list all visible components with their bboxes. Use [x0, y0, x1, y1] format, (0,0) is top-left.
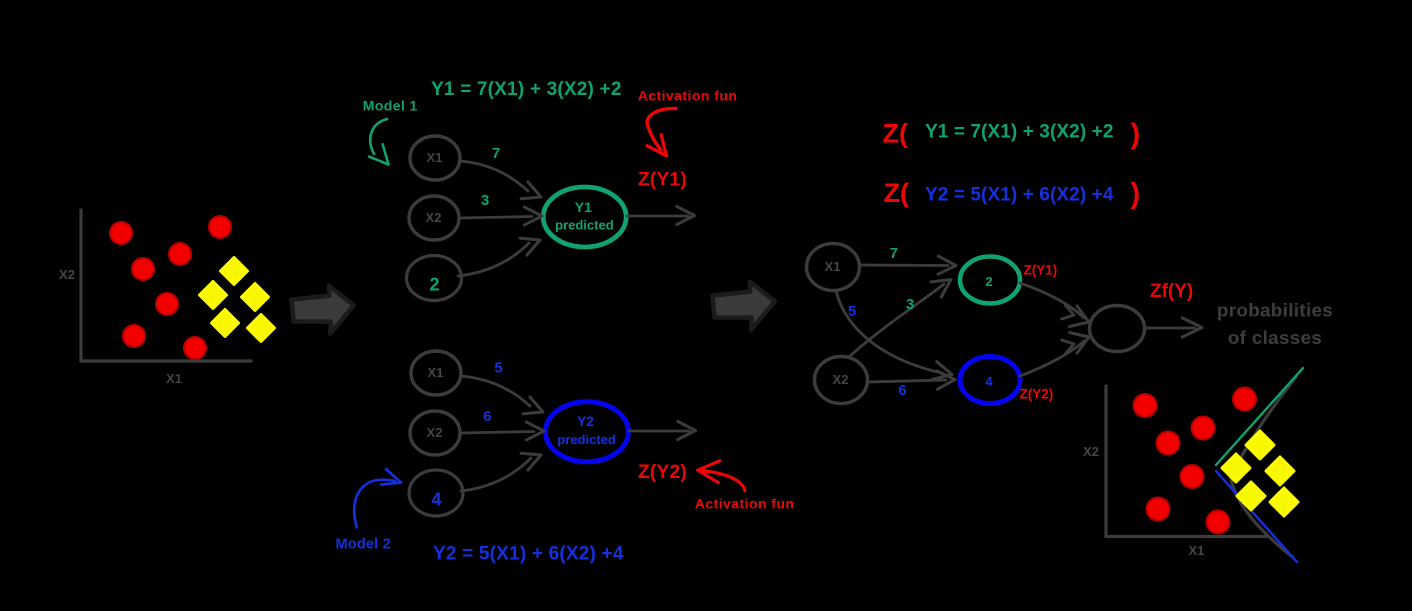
svg-text:Activation fun: Activation fun [695, 496, 795, 512]
svg-text:Activation fun: Activation fun [638, 88, 738, 104]
svg-text:Y1: Y1 [575, 199, 592, 215]
svg-text:4: 4 [985, 374, 993, 389]
svg-text:3: 3 [906, 296, 914, 313]
svg-text:3: 3 [481, 192, 489, 209]
svg-text:): ) [1131, 119, 1141, 151]
svg-text:Z(Y2): Z(Y2) [1020, 387, 1054, 402]
svg-text:X1: X1 [1189, 543, 1205, 558]
svg-text:X2: X2 [833, 372, 849, 387]
svg-text:X2: X2 [427, 425, 443, 440]
svg-text:Z(: Z( [883, 118, 908, 148]
svg-text:X1: X1 [825, 259, 841, 274]
svg-text:Z(: Z( [884, 178, 909, 208]
svg-text:Y2 = 5(X1) + 6(X2) +4: Y2 = 5(X1) + 6(X2) +4 [925, 184, 1114, 205]
svg-text:Zf(Y): Zf(Y) [1150, 281, 1193, 302]
svg-text:X1: X1 [428, 365, 444, 380]
svg-text:X2: X2 [59, 267, 75, 282]
svg-text:Y1 = 7(X1) + 3(X2) +2: Y1 = 7(X1) + 3(X2) +2 [925, 122, 1114, 143]
svg-text:X2: X2 [1083, 444, 1099, 459]
svg-text:Z(Y1): Z(Y1) [638, 170, 687, 191]
svg-text:): ) [1131, 178, 1141, 210]
svg-text:5: 5 [494, 360, 502, 377]
svg-text:X1: X1 [166, 371, 182, 386]
svg-text:7: 7 [492, 145, 500, 162]
svg-text:Model 1: Model 1 [363, 98, 418, 114]
svg-text:7: 7 [890, 245, 898, 262]
svg-text:2: 2 [985, 274, 992, 289]
svg-text:probabilities: probabilities [1217, 300, 1333, 321]
svg-text:of classes: of classes [1228, 327, 1322, 348]
svg-text:Model 2: Model 2 [336, 537, 391, 553]
svg-text:predicted: predicted [555, 218, 614, 233]
svg-text:Y1 = 7(X1) + 3(X2) +2: Y1 = 7(X1) + 3(X2) +2 [431, 79, 622, 100]
svg-text:Y2 = 5(X1) + 6(X2) +4: Y2 = 5(X1) + 6(X2) +4 [433, 544, 624, 565]
svg-text:2: 2 [429, 275, 439, 295]
svg-text:X2: X2 [426, 210, 442, 225]
svg-text:X1: X1 [427, 150, 443, 165]
svg-text:predicted: predicted [557, 432, 616, 447]
svg-text:Y2: Y2 [577, 413, 594, 429]
svg-text:Z(Y2): Z(Y2) [638, 462, 687, 483]
svg-text:Z(Y1): Z(Y1) [1024, 263, 1058, 278]
svg-text:4: 4 [431, 490, 441, 510]
svg-text:6: 6 [898, 382, 906, 399]
svg-text:5: 5 [848, 303, 856, 320]
svg-text:6: 6 [483, 408, 491, 425]
